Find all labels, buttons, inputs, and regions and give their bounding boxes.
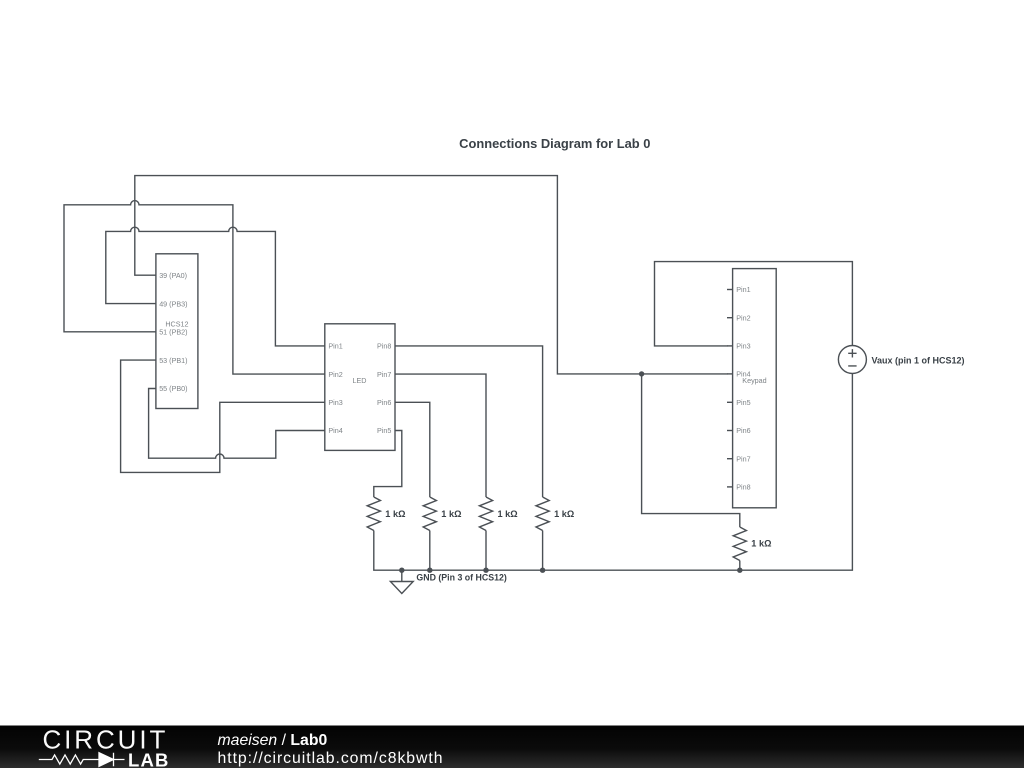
wire LED Pin5 to resistor R1 (374, 431, 402, 498)
svg-text:1 kΩ: 1 kΩ (751, 538, 771, 548)
wire R2 bottom lead (429, 531, 431, 571)
wire ground rail (374, 374, 853, 571)
junction dot R3 on rail (483, 568, 488, 573)
svg-text:Pin2: Pin2 (736, 313, 750, 322)
pin stub keypad Pin6 (727, 430, 733, 432)
svg-text:Keypad: Keypad (742, 376, 766, 385)
logo resistor-diode underline (39, 753, 125, 767)
svg-text:39 (PA0): 39 (PA0) (159, 271, 187, 280)
svg-text:Pin8: Pin8 (736, 483, 750, 492)
pin stub keypad Pin2 (727, 317, 733, 319)
wire R3 bottom lead (485, 531, 487, 571)
svg-text:Pin2: Pin2 (328, 370, 342, 379)
resistor R5 1k (733, 527, 746, 560)
svg-text:1 kΩ: 1 kΩ (554, 509, 574, 519)
svg-text:53 (PB1): 53 (PB1) (159, 356, 187, 365)
wire net PB0: HCS12 pin55 to LED Pin4 (hop over PB1 vertical) (149, 389, 325, 459)
junction dot R5 on rail (737, 568, 742, 573)
ground symbol (390, 570, 413, 593)
svg-text:51 (PB2): 51 (PB2) (159, 328, 187, 337)
voltage source V1 Vaux (838, 346, 866, 374)
chip U1 HCS12 (156, 254, 198, 409)
wire net PB3: HCS12 pin49 to LED Pin1 (hops over two verticals) (106, 227, 325, 346)
wire LED Pin7 to resistor R3 (395, 374, 486, 497)
wire R5 bottom lead (739, 561, 741, 571)
chip U3 Keypad (727, 269, 776, 508)
wire R4 bottom lead (542, 531, 544, 571)
pin stub keypad Pin5 (727, 401, 733, 403)
wire LED Pin6 to resistor R2 (395, 402, 430, 497)
pin stub keypad Pin1 (727, 289, 733, 291)
junction dot R4 on rail (540, 568, 545, 573)
pin stub keypad Pin4 (727, 373, 733, 375)
resistor R3 1k (479, 497, 492, 530)
junction dot R2 on rail (427, 568, 432, 573)
svg-text:Pin6: Pin6 (736, 426, 750, 435)
svg-text:55 (PB0): 55 (PB0) (159, 384, 187, 393)
svg-text:Pin7: Pin7 (377, 370, 391, 379)
wire net PB2: HCS12 pin51 to LED Pin2 (hop over PA0 vertical) (64, 201, 325, 375)
svg-text:1 kΩ: 1 kΩ (441, 509, 461, 519)
wire net PB1: HCS12 pin53 to LED Pin3 (121, 360, 325, 472)
svg-text:maeisen / Lab0: maeisen / Lab0 (218, 732, 328, 749)
svg-text:Pin4: Pin4 (328, 426, 342, 435)
wire net PA0: HCS12 pin39 to keypad Pin4 (135, 176, 728, 374)
svg-text:LED: LED (353, 376, 367, 385)
wire LED Pin8 to resistor R4 (395, 346, 543, 497)
svg-text:LAB: LAB (128, 750, 170, 768)
wire keypad Pin4 junction down to resistor R5 (642, 374, 740, 527)
chip U2 LED (325, 324, 395, 451)
pin stub keypad Pin8 (727, 486, 733, 488)
svg-text:Pin5: Pin5 (736, 398, 750, 407)
svg-text:Connections Diagram for Lab 0: Connections Diagram for Lab 0 (459, 136, 650, 151)
resistor R2 1k (423, 497, 436, 530)
resistor R4 1k (536, 497, 549, 530)
svg-text:GND (Pin 3 of HCS12): GND (Pin 3 of HCS12) (416, 573, 506, 583)
resistor R1 1k (367, 497, 380, 530)
wire Vaux top to keypad Pin3 (655, 262, 853, 346)
svg-text:Pin7: Pin7 (736, 454, 750, 463)
svg-text:Pin1: Pin1 (328, 342, 342, 351)
svg-text:1 kΩ: 1 kΩ (385, 509, 405, 519)
svg-text:49 (PB3): 49 (PB3) (159, 299, 187, 308)
junction dot GND stub (399, 568, 404, 573)
svg-text:Pin3: Pin3 (328, 398, 342, 407)
svg-text:Pin3: Pin3 (736, 342, 750, 351)
svg-text:http://circuitlab.com/c8kbwth: http://circuitlab.com/c8kbwth (218, 750, 444, 767)
svg-text:Pin5: Pin5 (377, 426, 391, 435)
svg-text:Pin1: Pin1 (736, 285, 750, 294)
svg-text:Vaux (pin 1 of HCS12): Vaux (pin 1 of HCS12) (872, 355, 965, 365)
svg-text:1 kΩ: 1 kΩ (498, 509, 518, 519)
svg-text:Pin8: Pin8 (377, 342, 391, 351)
svg-text:Pin6: Pin6 (377, 398, 391, 407)
pin stub keypad Pin7 (727, 458, 733, 460)
pin stub keypad Pin3 (727, 345, 733, 347)
svg-text:HCS12: HCS12 (165, 319, 188, 328)
junction dot keypad Pin4 net (639, 371, 644, 376)
